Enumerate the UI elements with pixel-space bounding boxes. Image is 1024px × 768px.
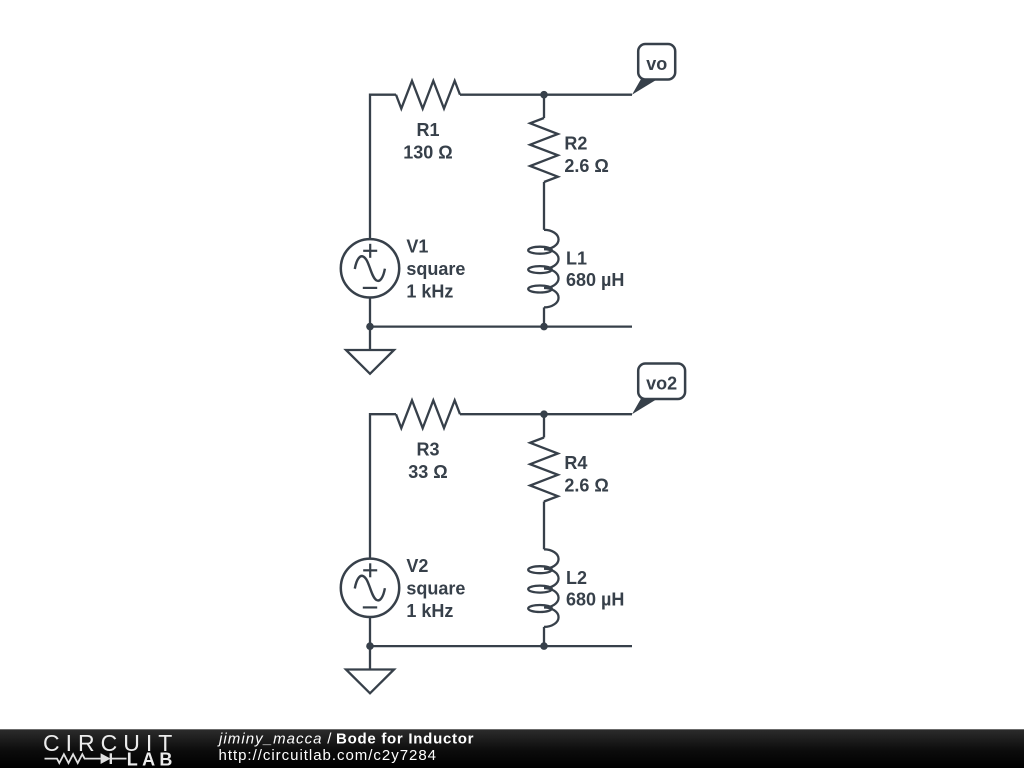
wire: R3 right to node vo2 — [460, 413, 632, 415]
wire: ground rail of circuit 1 — [370, 325, 632, 327]
svg-text:1 kHz: 1 kHz — [406, 282, 453, 302]
svg-text:LAB: LAB — [127, 750, 177, 768]
inductor L1 (680 µH) — [528, 230, 558, 308]
resistor R2 (2.6 Ω) — [543, 95, 545, 118]
svg-text:1 kHz: 1 kHz — [406, 601, 453, 621]
flag tail for net vo2 — [632, 399, 657, 414]
svg-text:Bode for Inductor: Bode for Inductor — [336, 730, 474, 747]
svg-text:33 Ω: 33 Ω — [408, 462, 447, 482]
junction: node vo2 at R4 top — [540, 410, 548, 418]
wire: V2 positive terminal up and over to R3 left — [370, 414, 396, 558]
svg-text:L1: L1 — [566, 248, 587, 268]
svg-text:130 Ω: 130 Ω — [403, 142, 452, 162]
flag tail for net vo — [632, 79, 657, 94]
wire: ground rail of circuit 2 — [370, 645, 632, 647]
svg-text:680 µH: 680 µH — [566, 270, 624, 290]
ground symbol of circuit 2 — [346, 646, 394, 693]
logo diode bar and wire — [110, 753, 112, 764]
svg-text:R2: R2 — [564, 133, 587, 153]
svg-text:http://circuitlab.com/c2y7284: http://circuitlab.com/c2y7284 — [219, 747, 437, 764]
flag box for net vo — [638, 44, 675, 80]
svg-text:V2: V2 — [406, 556, 428, 576]
wire: V1 positive terminal up and over to R1 left — [370, 95, 396, 239]
footer bar — [0, 729, 1024, 768]
junction: node vo at R2 top — [540, 91, 548, 99]
junction: L2 bottom at ground rail — [540, 642, 548, 650]
resistor R4 (2.6 Ω) — [543, 414, 545, 437]
wire: V2 negative terminal to ground rail — [369, 617, 371, 646]
logo schematic squiggle: wire — [45, 753, 127, 764]
svg-text:R3: R3 — [416, 440, 439, 460]
svg-text:square: square — [406, 259, 465, 279]
resistor R3 (33 &#937;) — [396, 400, 460, 428]
junction: V1 negative at ground rail — [366, 323, 374, 331]
svg-text:vo: vo — [646, 54, 667, 74]
voltage source V2 (square 1 kHz) — [341, 559, 399, 617]
logo resistor zigzag — [45, 754, 101, 763]
voltage source V1 (square 1 kHz) — [341, 239, 399, 297]
junction: L1 bottom at ground rail — [540, 323, 548, 331]
svg-text:680 µH: 680 µH — [566, 589, 624, 609]
svg-text:square: square — [406, 579, 465, 599]
flag box for net vo2 — [638, 364, 685, 400]
ground symbol of circuit 1 — [346, 327, 394, 374]
wire: R1 right to node vo — [460, 94, 632, 96]
svg-text:2.6 Ω: 2.6 Ω — [564, 475, 608, 495]
svg-text:V1: V1 — [406, 237, 428, 257]
svg-text:2.6 Ω: 2.6 Ω — [564, 156, 608, 176]
svg-text:R1: R1 — [416, 120, 439, 140]
svg-text:R4: R4 — [564, 453, 587, 473]
svg-text:L2: L2 — [566, 568, 587, 588]
logo diode triangle — [101, 753, 111, 764]
inductor L2 (680 µH) — [528, 549, 558, 627]
wire: V1 negative terminal to ground rail — [369, 298, 371, 327]
svg-text:jiminy_macca: jiminy_macca — [217, 730, 322, 747]
resistor R1 (130 &#937;) — [396, 81, 460, 109]
wire: L1 bottom to ground rail — [543, 307, 545, 326]
svg-text:vo2: vo2 — [646, 374, 677, 394]
junction: V2 negative at ground rail — [366, 642, 374, 650]
wire: L2 bottom to ground rail — [543, 627, 545, 646]
